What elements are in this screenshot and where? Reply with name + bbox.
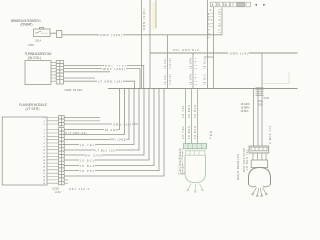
right lamp wire drop from bus88 x=258 bbox=[257, 89, 259, 147]
svg-text:(ON BAT): (ON BAT) bbox=[21, 23, 33, 27]
svg-text:18 YEL: 18 YEL bbox=[181, 125, 185, 139]
svg-text:7: 7 bbox=[232, 3, 234, 7]
svg-text:18 Y: 18 Y bbox=[179, 162, 184, 164]
svg-text:5: 5 bbox=[218, 3, 220, 7]
svg-text:4: 4 bbox=[212, 3, 214, 7]
wire: turn sw WHT bbox=[64, 69, 141, 89]
svg-text:18 GRN: 18 GRN bbox=[190, 58, 193, 69]
turn/hazard switch pins bbox=[51, 62, 56, 81]
fan wire 10 bbox=[64, 89, 164, 177]
green lamp stacked label column bbox=[179, 150, 186, 176]
label stacks beside x=193 bbox=[190, 58, 198, 85]
svg-text:RIGHT REAR LPS: RIGHT REAR LPS bbox=[236, 154, 240, 180]
right lamp filaments bbox=[252, 188, 267, 197]
fan wire 6 bbox=[64, 89, 144, 156]
vertical wire x=222 bbox=[221, 8, 223, 35]
svg-text:PPL (1415): PPL (1415) bbox=[111, 138, 127, 142]
green lamp connector bbox=[184, 144, 207, 149]
svg-text:18 Y: 18 Y bbox=[179, 150, 184, 152]
svg-text:18 BRN (9): 18 BRN (9) bbox=[245, 150, 249, 170]
svg-text:18 GRN: 18 GRN bbox=[105, 128, 118, 132]
right lamp wire drop from bus53 x=262 bbox=[261, 53, 263, 146]
right lamp bulb dome bbox=[249, 168, 271, 185]
label on fan wire 9 bbox=[79, 169, 95, 173]
flasher stub wire row1 bbox=[64, 117, 100, 119]
svg-text:18 B: 18 B bbox=[258, 105, 263, 107]
right lamp bulb base arcs bbox=[249, 185, 271, 187]
right lamp wire labels bbox=[241, 98, 270, 113]
svg-text:18 PPL: 18 PPL bbox=[80, 169, 96, 173]
rotated wire label between x=207.5 and 213.5 bbox=[207, 13, 214, 38]
svg-text:18 BLK: 18 BLK bbox=[241, 110, 250, 113]
svg-text:6: 6 bbox=[225, 3, 227, 7]
green lamp pin row bbox=[186, 151, 206, 155]
svg-text:18 BLK: 18 BLK bbox=[193, 126, 197, 139]
vertical wire x=207.5 bbox=[207, 0, 209, 89]
svg-text:18 B: 18 B bbox=[179, 153, 184, 155]
label LT GRN (14) bbox=[97, 79, 123, 83]
flasher stub wire row3 with label GRN bbox=[64, 123, 138, 125]
brake light switch S1 box bbox=[34, 27, 51, 36]
svg-text:◄: ◄ bbox=[254, 3, 258, 7]
svg-text:GRN (14): GRN (14) bbox=[230, 52, 248, 56]
fan wire 8 bbox=[64, 89, 154, 166]
flasher connector C220 ladder bbox=[59, 128, 65, 185]
svg-text:DK GRN: DK GRN bbox=[86, 153, 102, 157]
svg-text:C410: C410 bbox=[264, 98, 270, 100]
between-bus vertical x=193 bbox=[192, 53, 194, 89]
turn/hazard connector C209 ladder bbox=[56, 61, 63, 85]
svg-text:150 A: 150 A bbox=[35, 40, 42, 43]
svg-text:18 CKT: 18 CKT bbox=[73, 88, 83, 92]
fan wire 1 bbox=[64, 89, 119, 130]
svg-text:C209: C209 bbox=[65, 88, 72, 92]
svg-text:(27 SER): (27 SER) bbox=[26, 107, 40, 111]
stub wire y=57 bbox=[204, 56, 214, 58]
svg-text:18 YEL: 18 YEL bbox=[80, 143, 96, 147]
svg-text:18 BRN: 18 BRN bbox=[187, 105, 191, 118]
fan wire 4 bbox=[64, 89, 134, 145]
wire label ORN (140) bbox=[99, 32, 123, 37]
svg-text:150: 150 bbox=[207, 29, 211, 39]
vertical wire from top edge at x=141.5 bbox=[141, 0, 143, 89]
label PPL (16) bbox=[104, 63, 127, 67]
svg-text:18 B: 18 B bbox=[179, 171, 184, 173]
label stacks beside x=167.5 bbox=[164, 57, 172, 85]
fan wire 7 bbox=[64, 89, 149, 161]
svg-text:18 G: 18 G bbox=[258, 101, 263, 103]
faint ghost step wire right bbox=[262, 72, 289, 84]
flasher pin stubs bbox=[47, 118, 59, 184]
svg-text:PPL GRN BLU: PPL GRN BLU bbox=[173, 49, 199, 52]
wire: turn sw LT GRN bbox=[64, 81, 135, 88]
short vertical wire from top edge at x=156 bbox=[155, 0, 157, 28]
label stacks beside x=209 bbox=[204, 58, 207, 85]
green lamp label C410 bbox=[210, 132, 214, 140]
wire: turn sw stub 1 bbox=[64, 71, 111, 73]
label on fan wire 8 bbox=[79, 164, 95, 168]
wire: turn sw stub 2 bbox=[64, 77, 96, 79]
brake light switch label bbox=[11, 19, 41, 27]
flasher stub wire row2 bbox=[64, 120, 100, 122]
svg-text:18 YEL: 18 YEL bbox=[181, 104, 185, 118]
svg-text:18 BRN: 18 BRN bbox=[187, 126, 191, 139]
svg-text:18 BLU: 18 BLU bbox=[204, 74, 207, 85]
highlighter streak (yellow) bbox=[152, 2, 157, 30]
svg-text:A 21: A 21 bbox=[55, 190, 61, 194]
svg-text:(IN COL): (IN COL) bbox=[28, 56, 41, 60]
bus wire y=53 (GRN) bbox=[150, 52, 298, 54]
svg-text:18 B: 18 B bbox=[179, 156, 184, 158]
svg-text:18 B: 18 B bbox=[179, 165, 184, 167]
svg-text:W/S: W/S bbox=[179, 159, 184, 161]
flasher module label bbox=[19, 103, 48, 111]
fan wire 2 bbox=[64, 89, 124, 135]
svg-text:18 LT GRN (14): 18 LT GRN (14) bbox=[64, 132, 87, 135]
svg-text:18 BLK: 18 BLK bbox=[193, 105, 197, 118]
flasher pin numbers bbox=[43, 118, 46, 186]
label on fan wire 6 bbox=[85, 153, 102, 157]
wire: turn sw PPL bbox=[64, 65, 144, 88]
svg-text:A91 11A 2: A91 11A 2 bbox=[69, 187, 90, 191]
svg-text:LT GRN (14): LT GRN (14) bbox=[98, 80, 122, 84]
label on fan wire 3 bbox=[110, 138, 127, 142]
label on fan wire 5 bbox=[95, 148, 116, 152]
green lamp body bbox=[185, 155, 206, 182]
vertical wire from top edge at x=150 bbox=[149, 0, 151, 89]
svg-text:C150: C150 bbox=[28, 44, 34, 47]
fan wire 3 bbox=[64, 89, 129, 140]
svg-text:(1415): (1415) bbox=[169, 58, 172, 69]
svg-text:18 YEL: 18 YEL bbox=[164, 73, 167, 85]
flasher module box bbox=[2, 117, 47, 185]
svg-text:LH R: LH R bbox=[179, 168, 185, 170]
fan wire 9 bbox=[64, 89, 159, 171]
turn/hazard switch box bbox=[25, 61, 51, 85]
bus wire y=88.5 bbox=[108, 88, 298, 90]
turn/hazard switch label bbox=[25, 52, 53, 60]
green lamp filaments bbox=[187, 184, 203, 193]
svg-text:18 BLU: 18 BLU bbox=[80, 158, 95, 162]
svg-text:18 YEL: 18 YEL bbox=[164, 57, 167, 69]
vertical wire x=213.5 bbox=[213, 7, 215, 89]
label on fan wire 4 bbox=[79, 143, 95, 147]
svg-text:18 BLU: 18 BLU bbox=[204, 58, 207, 69]
right lamp bulb neck bbox=[251, 160, 268, 168]
wire: brake switch to junction (ORN) bbox=[50, 33, 222, 35]
svg-text:►: ► bbox=[263, 3, 267, 7]
label on fan wire 7 bbox=[79, 158, 95, 162]
inline connector ladder on x=262 wire bbox=[256, 88, 264, 96]
flasher upper connector bbox=[59, 116, 65, 126]
svg-text:LT BLU (15): LT BLU (15) bbox=[96, 148, 116, 152]
svg-text:LAMP: LAMP bbox=[179, 173, 186, 176]
right lamp connector bbox=[249, 146, 269, 153]
svg-text:2 W/S 1/2: 2 W/S 1/2 bbox=[268, 126, 272, 145]
brake switch connector C150 bbox=[57, 31, 62, 38]
page nav header row bbox=[210, 2, 267, 12]
label GRN (14) bbox=[112, 122, 132, 126]
green wire labels bbox=[181, 104, 197, 139]
svg-text:WHT (463): WHT (463) bbox=[103, 67, 125, 71]
right lamp legs bbox=[253, 153, 266, 160]
flasher bottom stub rows bbox=[64, 180, 68, 183]
right lamp wire drop from bus88 x=253.5 bbox=[253, 89, 255, 147]
green ghost lamp: wire drops bbox=[186, 89, 198, 144]
label on fan wire 1 bbox=[104, 128, 118, 132]
svg-text:ORN (140): ORN (140) bbox=[100, 33, 122, 37]
between-bus vertical x=167.5 bbox=[167, 35, 169, 89]
svg-text:18 GRN: 18 GRN bbox=[190, 74, 193, 85]
svg-text:(1415): (1415) bbox=[169, 74, 172, 85]
label WHT (463) bbox=[102, 67, 126, 71]
fan wire 5 bbox=[64, 89, 139, 151]
svg-text:LT BLU (20): LT BLU (20) bbox=[218, 9, 222, 33]
svg-text:GRN (14): GRN (14) bbox=[113, 122, 131, 126]
svg-text:18 BLK: 18 BLK bbox=[80, 164, 95, 168]
svg-text:ORN (140): ORN (140) bbox=[142, 9, 146, 30]
